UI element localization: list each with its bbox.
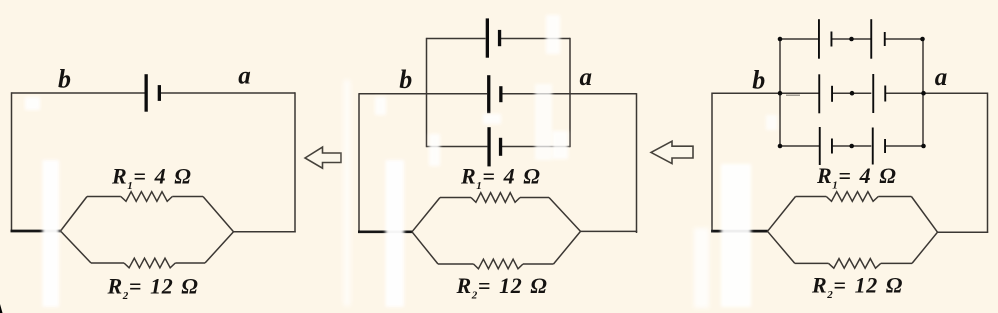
wire: battery box left rail — [426, 38, 428, 147]
wire: middle bottom-right — [581, 230, 638, 232]
wire: right main wire right of bank — [923, 92, 988, 94]
resistor R1 (middle, 4 ohm) — [471, 193, 520, 203]
junction dots: bank bottom row — [778, 144, 926, 149]
wire: right left vertical — [711, 93, 713, 232]
white-out artifact 6 — [429, 134, 440, 166]
svg-text:a: a — [238, 63, 251, 90]
wire: middle hexagon lower-right slant — [554, 231, 581, 264]
wire: left circuit bottom-right — [234, 231, 296, 233]
white-out artifact 11 — [694, 228, 709, 308]
white-out artifact 10 — [552, 131, 568, 159]
resistor R2 (left, 12 ohm) — [124, 258, 175, 268]
white-out artifact 12 — [721, 164, 751, 307]
wire: right hexagon lower-right slant — [912, 232, 938, 263]
svg-text:b: b — [399, 65, 412, 94]
battery B7 (right bank middle-left cell) — [818, 74, 833, 113]
wire: middle main wire right of box — [570, 93, 637, 95]
svg-text:R2= 12 Ω: R2= 12 Ω — [107, 274, 199, 303]
white-out artifact 4 — [375, 97, 386, 115]
wire: middle main wire left of box — [359, 93, 427, 95]
wire: middle right vertical — [636, 93, 638, 233]
arrow: right-to-middle block arrow — [651, 141, 693, 163]
wire: box top branch right — [501, 38, 571, 40]
wire: left circuit top wire a-side — [160, 92, 295, 94]
wire: bank left rail — [779, 38, 781, 146]
wire: faint stub right of left rail — [786, 94, 800, 96]
white-out artifact 5 — [386, 160, 405, 307]
wire: right hexagon bottom lead right — [881, 262, 912, 264]
svg-text:a: a — [579, 64, 592, 91]
svg-text:R1= 4 Ω: R1= 4 Ω — [816, 163, 896, 192]
battery B9 (right bank bottom-left cell) — [819, 127, 833, 165]
wire: left circuit right vertical — [294, 92, 296, 232]
wire: left hexagon upper-right slant — [203, 197, 234, 232]
corner mark bottom-left — [0, 304, 3, 313]
wire: middle hexagon lower-left slant — [412, 232, 438, 264]
svg-text:R2= 12 Ω: R2= 12 Ω — [456, 273, 548, 302]
wire: left hexagon top lead right — [172, 196, 203, 198]
wire: bank bottom branch segment 3 — [885, 145, 923, 147]
white-out artifact 3 — [344, 80, 351, 306]
wire: middle hexagon top lead right — [520, 197, 549, 199]
resistor R1 (right, 4 ohm) — [826, 192, 878, 202]
wire: left circuit top wire b-side — [12, 92, 145, 94]
wire: right bottom-right — [938, 231, 989, 233]
battery B5 (right bank top-left cell) — [818, 19, 832, 59]
wire: middle hexagon bottom lead right — [523, 263, 554, 265]
wire: right hexagon bottom lead left — [795, 262, 829, 264]
battery B4 (middle bottom cell) — [487, 127, 502, 166]
wire: box bottom branch left — [427, 146, 488, 148]
wire: bank middle branch segment 1 — [780, 92, 819, 94]
wire: battery box right rail — [569, 38, 571, 147]
wire: left circuit left vertical — [11, 92, 13, 231]
wire: right hexagon upper-right slant — [911, 197, 937, 233]
wire: bank top branch segment 3 — [885, 38, 923, 40]
wire: box bottom branch right — [502, 146, 570, 148]
wire: box top branch left — [427, 38, 486, 40]
wire: middle hexagon upper-right slant — [549, 198, 581, 232]
wire: middle main wire inside box left — [427, 93, 488, 95]
white-out artifact 13 — [766, 115, 777, 130]
wire: left hexagon bottom lead left — [91, 262, 124, 264]
wire: middle hexagon top lead left — [440, 197, 471, 199]
wire: middle main wire inside box right — [502, 93, 571, 95]
svg-text:R2= 12 Ω: R2= 12 Ω — [811, 273, 903, 302]
battery B8 (right bank middle-right cell) — [872, 74, 886, 113]
wire: middle left vertical — [358, 93, 360, 232]
svg-text:a: a — [935, 64, 948, 91]
wire: right hexagon lower-left slant — [768, 231, 795, 263]
wire: left hexagon top lead left — [87, 196, 121, 198]
white-out artifact 1 — [25, 97, 40, 110]
battery B6 (right bank top-right cell) — [870, 19, 885, 59]
svg-text:R1= 4 Ω: R1= 4 Ω — [460, 164, 540, 193]
resistor R1 (left, 4 ohm) — [121, 192, 173, 202]
resistor R2 (right, 12 ohm) — [829, 259, 881, 269]
wire: bank right rail — [922, 38, 924, 146]
wire: bank middle branch segment 2 — [832, 92, 872, 94]
white-out artifact 9 — [535, 84, 552, 160]
wire: bank bottom branch segment 1 — [780, 145, 819, 147]
svg-text:b: b — [58, 65, 71, 94]
wire: middle hexagon bottom lead left — [438, 263, 474, 265]
junction dots: bank top row — [778, 37, 925, 42]
white-out artifact 2 — [43, 160, 60, 307]
wire: left hexagon lower-left slant — [61, 231, 92, 263]
wire: bank bottom branch segment 2 — [832, 145, 872, 147]
wire: right hexagon upper-left slant — [768, 197, 796, 232]
battery B10 (right bank bottom-right cell) — [872, 128, 886, 165]
wire: right main wire left of bank — [712, 92, 780, 94]
wire: bank top branch segment 1 — [780, 38, 819, 40]
white-out artifact 8 — [546, 15, 560, 54]
resistor R2 (middle, 12 ohm) — [474, 259, 524, 269]
wire: left hexagon upper-left slant — [61, 197, 88, 232]
wire: middle bottom-left (bold) — [358, 230, 413, 233]
svg-text:R1= 4 Ω: R1= 4 Ω — [111, 164, 191, 193]
white-out artifact 7 — [483, 114, 501, 124]
wire: middle hexagon upper-left slant — [412, 198, 440, 232]
wire: right hexagon top lead left — [796, 196, 827, 198]
wire: left circuit bottom-left (bold) — [11, 230, 62, 233]
wire: left hexagon lower-right slant — [205, 232, 234, 263]
wire: right hexagon top lead right — [878, 196, 911, 198]
arrow: middle-to-left block arrow — [305, 147, 341, 168]
svg-text:b: b — [752, 66, 765, 95]
wire: bank top branch segment 2 — [832, 38, 872, 40]
battery B1 (left circuit cell) — [145, 74, 162, 112]
junction dots: bank middle row — [778, 91, 926, 96]
battery B2 (middle top cell) — [486, 18, 501, 57]
wire: left hexagon bottom lead right — [175, 262, 205, 264]
battery B3 (middle centre cell) — [487, 75, 502, 113]
wire: bank middle branch segment 3 — [885, 92, 923, 94]
wire: right bottom-left (bold) — [711, 230, 768, 233]
wire: right right vertical — [987, 93, 989, 233]
